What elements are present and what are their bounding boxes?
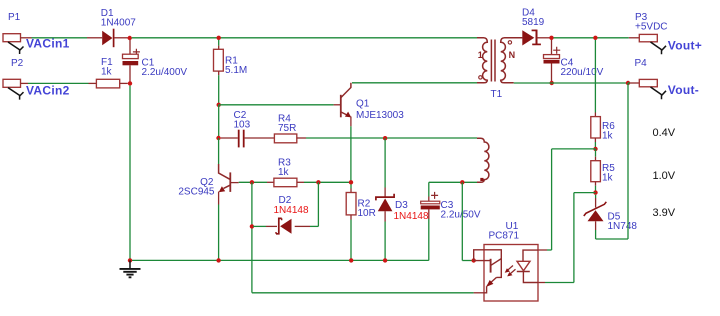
svg-text:1k: 1k — [602, 130, 614, 141]
wire C3 bottom lead — [428, 219, 430, 260]
wire ground rail — [130, 259, 429, 261]
op-amp U1 body — [484, 245, 538, 302]
svg-text:10R: 10R — [358, 208, 376, 219]
wire D5 to P4 column — [596, 238, 628, 240]
diode D1 — [87, 37, 102, 39]
connector P3 hook — [651, 42, 667, 54]
svg-text:Vout-: Vout- — [668, 83, 699, 97]
pin Q2 base stub — [231, 182, 239, 184]
transistor Q2 emitter — [224, 185, 231, 188]
svg-text:75R: 75R — [278, 123, 296, 134]
resistor R4 — [274, 134, 296, 143]
zener diode D5 — [595, 195, 597, 198]
svg-text:2.2u/50V: 2.2u/50V — [441, 210, 481, 221]
svg-text:P2: P2 — [11, 58, 24, 69]
transistor Q1 emitter — [341, 112, 347, 115]
pin P2 stub — [21, 82, 29, 84]
svg-text:2SC945: 2SC945 — [178, 187, 215, 198]
wire D2 left column — [251, 182, 253, 292]
wire P4 junction to connector — [628, 82, 630, 84]
capacitor C4 plus — [553, 47, 560, 54]
pin U1 anode stub — [538, 249, 547, 251]
wire P1 to D1 — [32, 37, 88, 39]
svg-text:0.4V: 0.4V — [653, 127, 676, 139]
node R3 left junction — [250, 180, 254, 184]
node P4 junction — [626, 81, 630, 85]
transistor Q2 base bar — [229, 172, 231, 192]
pin Q1 base stub — [334, 104, 341, 106]
transistor Q1 collector — [341, 83, 351, 98]
capacitor C1 plus — [133, 49, 140, 54]
svg-text:1: 1 — [478, 50, 483, 60]
led U1 cathode line — [523, 272, 538, 283]
node R2 bottom junction — [349, 258, 353, 262]
node R1 bottom junction — [217, 103, 221, 107]
node C4 bottom junction — [550, 81, 554, 85]
led U1 light arrow 2 — [509, 269, 516, 275]
svg-text:1N4148: 1N4148 — [274, 205, 309, 216]
wire D3 top lead — [384, 138, 386, 187]
wire Q2 base to R3 — [239, 181, 267, 183]
transistor Q1 base bar — [340, 95, 342, 118]
wire cathode column — [573, 193, 575, 283]
svg-text:1k: 1k — [101, 66, 113, 77]
wire R1 to C2 row — [218, 105, 220, 138]
transformer T1 primary — [477, 38, 487, 83]
capacitor C2 — [221, 137, 238, 139]
wire C3 to aux junction — [429, 181, 477, 183]
wire bottom feedback — [252, 292, 474, 294]
wire feedback row — [552, 148, 596, 150]
node D2 left junction — [250, 224, 254, 228]
led U1 light arrow 1 — [506, 266, 513, 272]
svg-text:5.1M: 5.1M — [225, 65, 247, 76]
resistor R6 — [594, 113, 596, 117]
svg-text:VACin2: VACin2 — [26, 83, 70, 97]
node C2 row junction — [216, 136, 220, 140]
svg-text:103: 103 — [234, 120, 251, 131]
wire top rail — [132, 37, 477, 39]
wire R4 to aux — [306, 137, 477, 139]
capacitor C3 plus — [431, 192, 438, 199]
wire anode pin link — [547, 249, 552, 251]
node Q2 emitter ground junction — [216, 258, 220, 262]
wire feedback down — [551, 149, 553, 250]
wire R3 to emitter — [304, 181, 351, 183]
svg-text:220u/10V: 220u/10V — [561, 67, 604, 78]
capacitor C3 — [428, 197, 430, 202]
pin U1 emitter stub — [474, 292, 484, 294]
resistor R1 — [218, 40, 220, 46]
transformer T1 secondary dot — [508, 41, 511, 44]
wire R5 junction left — [574, 192, 596, 194]
node R1 top junction — [217, 36, 221, 40]
svg-text:3.9V: 3.9V — [653, 207, 676, 219]
led U1 triangle — [517, 261, 530, 271]
diode D4 — [514, 37, 523, 39]
svg-text:1N4007: 1N4007 — [101, 18, 136, 29]
transformer T1 primary dot — [479, 76, 482, 79]
svg-text:1N4148: 1N4148 — [394, 211, 429, 222]
svg-text:5819: 5819 — [522, 17, 545, 28]
connector P3 — [639, 34, 657, 41]
pin U1 cathode stub — [538, 282, 545, 284]
node R6 top junction — [593, 36, 597, 40]
transistor U1 collector slant — [491, 259, 501, 266]
node D3 top junction — [383, 136, 387, 140]
wire C2 row to Q2 — [218, 138, 220, 164]
wire C1 to ground — [129, 86, 131, 261]
connector P2 — [3, 79, 21, 87]
connector P4 — [639, 79, 657, 86]
pin P1 stub — [21, 37, 32, 39]
node F1-C1 junction — [128, 81, 132, 85]
node R5 bottom junction — [593, 190, 597, 194]
svg-text:T1: T1 — [491, 89, 503, 100]
connector P1 hook — [8, 42, 24, 54]
transformer T1 aux phase dot — [480, 178, 483, 181]
node D3 bottom junction — [383, 258, 387, 262]
transistor Q2 collector — [219, 164, 230, 179]
ground symbol — [129, 260, 131, 268]
svg-text:1.0V: 1.0V — [653, 170, 676, 182]
wire R6 top lead — [594, 40, 596, 113]
transistor U1 emitter — [487, 277, 497, 286]
transistor U1 collector pin — [474, 250, 502, 278]
led U1 anode line — [523, 250, 538, 261]
svg-text:Vout+: Vout+ — [668, 38, 702, 52]
diode D2 — [253, 225, 266, 227]
svg-text:MJE13003: MJE13003 — [356, 110, 404, 121]
node ground junction — [128, 258, 132, 262]
resistor R3 — [267, 181, 274, 183]
connector P4 hook — [651, 87, 667, 99]
resistor F1 — [89, 82, 97, 84]
capacitor C4 — [551, 40, 553, 55]
node D4 junction — [549, 36, 553, 40]
svg-text:D3: D3 — [395, 200, 408, 211]
led U1 cathode bar — [517, 271, 530, 273]
transformer T1 secondary — [501, 38, 523, 83]
svg-text:P4: P4 — [635, 58, 648, 69]
wire D2 right column — [317, 182, 319, 226]
transformer T1 core — [490, 40, 492, 82]
wire D4 to P3 — [554, 37, 629, 39]
wire C3 top lead — [428, 182, 430, 196]
svg-text:VACin1: VACin1 — [26, 37, 70, 51]
wire aux junction down — [461, 182, 463, 260]
transformer T1 aux winding — [477, 138, 489, 182]
pin P4 stub — [630, 82, 639, 84]
svg-text:P1: P1 — [8, 12, 21, 23]
wire cathode row — [545, 282, 574, 284]
node R2 top junction — [349, 180, 353, 184]
svg-text:PC871: PC871 — [489, 231, 520, 242]
wire secondary bottom — [514, 82, 628, 84]
node D2 right top junction — [316, 180, 320, 184]
svg-text:1k: 1k — [278, 167, 290, 178]
diode D3 — [384, 188, 386, 197]
node D1-C1 junction — [128, 36, 132, 40]
capacitor C1 bottom lead — [129, 65, 131, 81]
wire aux junction to U1 — [462, 260, 472, 262]
capacitor C1 top plate — [123, 54, 139, 58]
wire Q1 collector row — [352, 82, 477, 84]
wire base row Q1 — [219, 104, 334, 106]
wire P2 to F1 — [28, 82, 89, 84]
svg-text:Q1: Q1 — [356, 99, 370, 110]
wire Q1 emitter column — [350, 126, 352, 182]
resistor R2 — [350, 184, 352, 188]
node aux junction — [460, 180, 464, 184]
connector P2 hook — [8, 88, 24, 100]
svg-text:1k: 1k — [602, 173, 614, 184]
svg-text:N: N — [509, 50, 515, 60]
svg-text:1N748: 1N748 — [608, 221, 638, 232]
capacitor C1 bottom plate — [123, 61, 139, 65]
pin P3 stub — [629, 37, 640, 39]
transistor U1 bar — [490, 259, 492, 273]
wire Q2 emitter down — [218, 205, 220, 261]
node R6 bottom junction — [593, 147, 597, 151]
connector P1 — [3, 34, 21, 42]
transistor U1 base pin — [474, 260, 491, 262]
svg-text:2.2u/400V: 2.2u/400V — [142, 67, 188, 78]
capacitor C1 top lead — [129, 40, 131, 54]
resistor R5 — [595, 149, 597, 157]
node U1 collector junction — [472, 258, 476, 262]
svg-text:+5VDC: +5VDC — [635, 22, 668, 33]
